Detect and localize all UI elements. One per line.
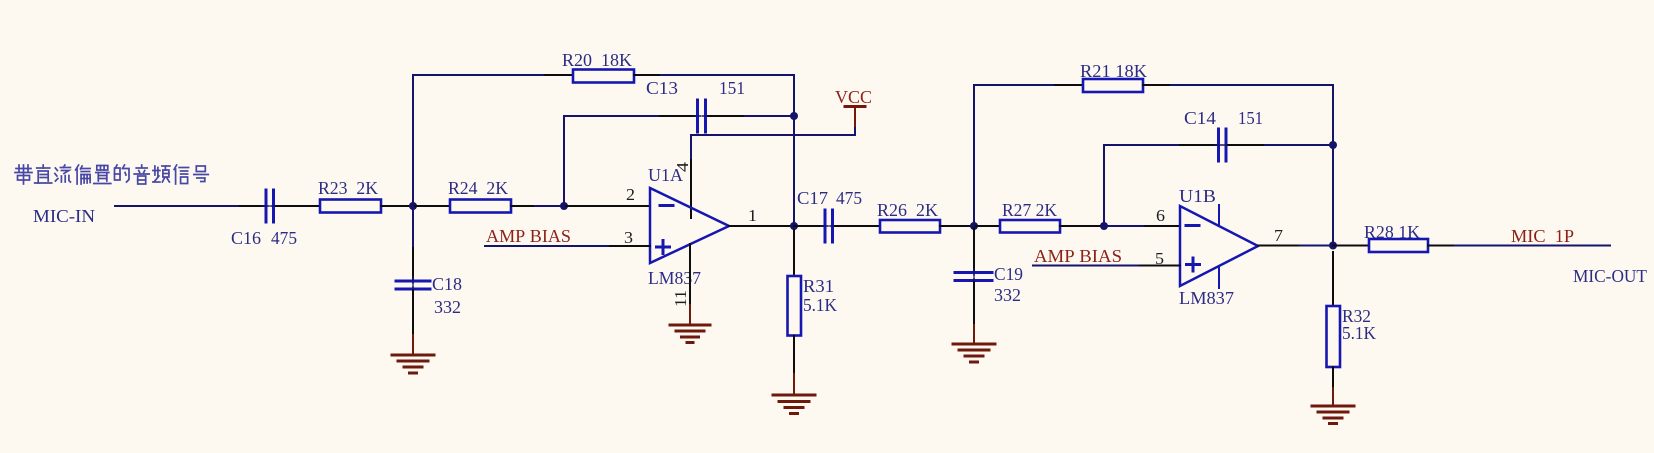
resistor R20 bbox=[573, 70, 634, 83]
resistor R23 bbox=[320, 200, 381, 213]
U1B minus sign bbox=[1186, 224, 1199, 227]
wire C13 branch horizontal bbox=[564, 115, 660, 117]
node F junction bbox=[1100, 222, 1108, 230]
svg-text:R21 18K: R21 18K bbox=[1080, 61, 1147, 81]
wire R21 right to corner bbox=[1143, 84, 1171, 86]
wire AMP_BIAS to pin5 bbox=[1033, 265, 1140, 267]
svg-text:151: 151 bbox=[719, 78, 745, 98]
wire R20 right to node C bbox=[634, 74, 661, 76]
wire node D to C17 bbox=[794, 225, 823, 227]
wire feedback vertical at node A bbox=[412, 75, 414, 248]
U1B plus sign bbox=[1187, 258, 1200, 271]
svg-text:C13: C13 bbox=[646, 78, 678, 98]
wire node H to R28 bbox=[1333, 245, 1369, 247]
wire C14 right to node G bbox=[1228, 144, 1265, 146]
ground below C19 bbox=[953, 344, 995, 362]
wire C18 bottom to ground bbox=[412, 290, 414, 335]
svg-text:C17: C17 bbox=[797, 188, 828, 208]
capacitor C17 bbox=[825, 210, 833, 242]
op-amp U1A bbox=[650, 188, 729, 263]
wire MIC-IN net bbox=[115, 205, 240, 207]
svg-text:1: 1 bbox=[748, 206, 757, 225]
resistor R24 bbox=[450, 200, 511, 213]
resistor R27 bbox=[1000, 220, 1060, 233]
wire C14 branch vertical bbox=[1103, 145, 1105, 226]
wire AMP_BIAS to pin3 bbox=[485, 245, 610, 247]
svg-text:151: 151 bbox=[1238, 108, 1263, 128]
ground below C18 bbox=[392, 355, 434, 373]
wire R31 top bbox=[793, 230, 795, 276]
resistor R31 bbox=[788, 276, 802, 336]
pin 4 lead U1A bbox=[690, 160, 692, 218]
wire R26 to node E bbox=[940, 225, 974, 227]
node C13-right junction bbox=[790, 112, 798, 120]
svg-text:5.1K: 5.1K bbox=[803, 295, 837, 315]
wire R32 bottom to ground bbox=[1332, 367, 1334, 388]
wire C17 to R26 bbox=[835, 225, 880, 227]
wire R23 to node A bbox=[381, 205, 413, 207]
svg-text:C14: C14 bbox=[1184, 108, 1216, 128]
node B junction bbox=[560, 202, 568, 210]
wire C19 top pin bbox=[973, 226, 975, 270]
char de bbox=[115, 165, 130, 182]
ground below R31 bbox=[773, 395, 815, 414]
ground below R32 bbox=[1312, 406, 1354, 424]
svg-text:U1B: U1B bbox=[1179, 186, 1216, 206]
wire vertical node C down bbox=[793, 75, 795, 226]
node H output junction bbox=[1329, 242, 1337, 250]
capacitor C14 bbox=[1219, 129, 1227, 161]
node E junction bbox=[970, 222, 978, 230]
label Chinese annotation (audio signal with DC bias) bbox=[15, 165, 208, 184]
wire U1B output pin7 bbox=[1258, 245, 1300, 247]
svg-text:475: 475 bbox=[271, 228, 297, 248]
wire C14 branch horizontal bbox=[1104, 144, 1180, 146]
svg-text:C18: C18 bbox=[432, 274, 462, 294]
wire feedback vertical right bbox=[1332, 85, 1334, 145]
svg-text:AMP BIAS: AMP BIAS bbox=[486, 226, 571, 246]
wire C16 to R23 bbox=[276, 205, 320, 207]
wire node E to R27 bbox=[974, 225, 1000, 227]
resistor R28 bbox=[1369, 239, 1428, 252]
U1B power stub bottom bbox=[1218, 266, 1220, 288]
svg-text:MIC 1P: MIC 1P bbox=[1511, 226, 1574, 246]
svg-text:C16: C16 bbox=[231, 228, 261, 248]
char dai bbox=[15, 165, 32, 184]
svg-text:6: 6 bbox=[1156, 206, 1165, 225]
svg-text:C19: C19 bbox=[994, 264, 1023, 284]
wire C13 branch vertical bbox=[563, 116, 565, 206]
node D output junction bbox=[790, 222, 798, 230]
svg-text:2: 2 bbox=[626, 185, 635, 204]
power VCC symbol bbox=[835, 87, 872, 135]
svg-text:5.1K: 5.1K bbox=[1342, 323, 1376, 343]
svg-text:AMP BIAS: AMP BIAS bbox=[1034, 246, 1122, 266]
svg-text:VCC: VCC bbox=[835, 87, 872, 107]
svg-text:R23 2K: R23 2K bbox=[318, 178, 378, 198]
svg-text:MIC-OUT: MIC-OUT bbox=[1573, 266, 1647, 286]
svg-text:MIC-IN: MIC-IN bbox=[33, 206, 95, 226]
svg-text:11: 11 bbox=[671, 290, 690, 307]
char pin bbox=[153, 166, 170, 182]
char liu bbox=[55, 165, 71, 182]
capacitor C19 bbox=[955, 273, 992, 281]
svg-text:U1A: U1A bbox=[648, 165, 683, 185]
char xin bbox=[174, 165, 189, 184]
wire node A to R24 bbox=[413, 205, 450, 207]
char yin bbox=[134, 165, 149, 184]
svg-text:332: 332 bbox=[994, 285, 1021, 305]
node A junction bbox=[409, 202, 417, 210]
svg-text:R26 2K: R26 2K bbox=[877, 200, 938, 220]
wire R28 to MIC_1P bbox=[1428, 245, 1455, 247]
capacitor C16 bbox=[266, 190, 274, 222]
wire C13 right to node bbox=[708, 115, 745, 117]
wire R24 to node B bbox=[511, 205, 535, 207]
wire VCC to U1A pin4 bbox=[691, 134, 855, 136]
wire C16 left pin bbox=[240, 205, 264, 207]
svg-text:7: 7 bbox=[1274, 226, 1284, 245]
wire R27 to node F bbox=[1060, 225, 1104, 227]
svg-text:LM837: LM837 bbox=[1179, 288, 1234, 308]
svg-text:R27 2K: R27 2K bbox=[1002, 200, 1057, 220]
resistor R32 bbox=[1327, 306, 1341, 367]
svg-text:332: 332 bbox=[434, 297, 461, 317]
char zhi bbox=[94, 166, 111, 184]
svg-text:R28 1K: R28 1K bbox=[1364, 222, 1420, 242]
svg-text:R31: R31 bbox=[803, 276, 834, 296]
wire R21 top run bbox=[974, 84, 1055, 86]
wire C18 top pin bbox=[412, 248, 414, 280]
U1B power stub top bbox=[1218, 205, 1220, 226]
svg-text:R24 2K: R24 2K bbox=[448, 178, 508, 198]
wire top feedback R20 run bbox=[414, 74, 545, 76]
wire R31 bottom to ground bbox=[793, 336, 795, 375]
svg-text:3: 3 bbox=[624, 228, 633, 247]
svg-text:LM837: LM837 bbox=[648, 268, 701, 288]
wire R32 top bbox=[1332, 252, 1334, 306]
op-amp U1B bbox=[1180, 206, 1258, 286]
char zhi bbox=[35, 165, 52, 183]
wire U1A output pin1 bbox=[729, 225, 794, 227]
char hao bbox=[194, 166, 209, 182]
capacitor C13 bbox=[698, 100, 706, 132]
label C16 value 475 bbox=[231, 228, 297, 248]
ground below U1A pin11 bbox=[670, 305, 710, 343]
U1A minus sign bbox=[660, 204, 673, 207]
U1A plus sign bbox=[657, 241, 670, 254]
capacitor C18 bbox=[396, 281, 430, 289]
wire C19 bottom to ground bbox=[973, 282, 975, 325]
char pian bbox=[76, 165, 91, 184]
wire node F to U1B pin6 bbox=[1104, 225, 1145, 227]
svg-text:R20 18K: R20 18K bbox=[562, 50, 632, 70]
resistor R26 bbox=[880, 220, 940, 233]
wire node B to U1A pin2 bbox=[564, 205, 650, 207]
svg-text:475: 475 bbox=[836, 188, 862, 208]
pin 11 lead U1A bbox=[689, 244, 691, 305]
node G junction C14 right bbox=[1329, 141, 1337, 149]
wire node G down to output bbox=[1332, 145, 1334, 246]
wire R21 feedback vertical left bbox=[973, 85, 975, 226]
resistor R21 bbox=[1083, 79, 1143, 92]
